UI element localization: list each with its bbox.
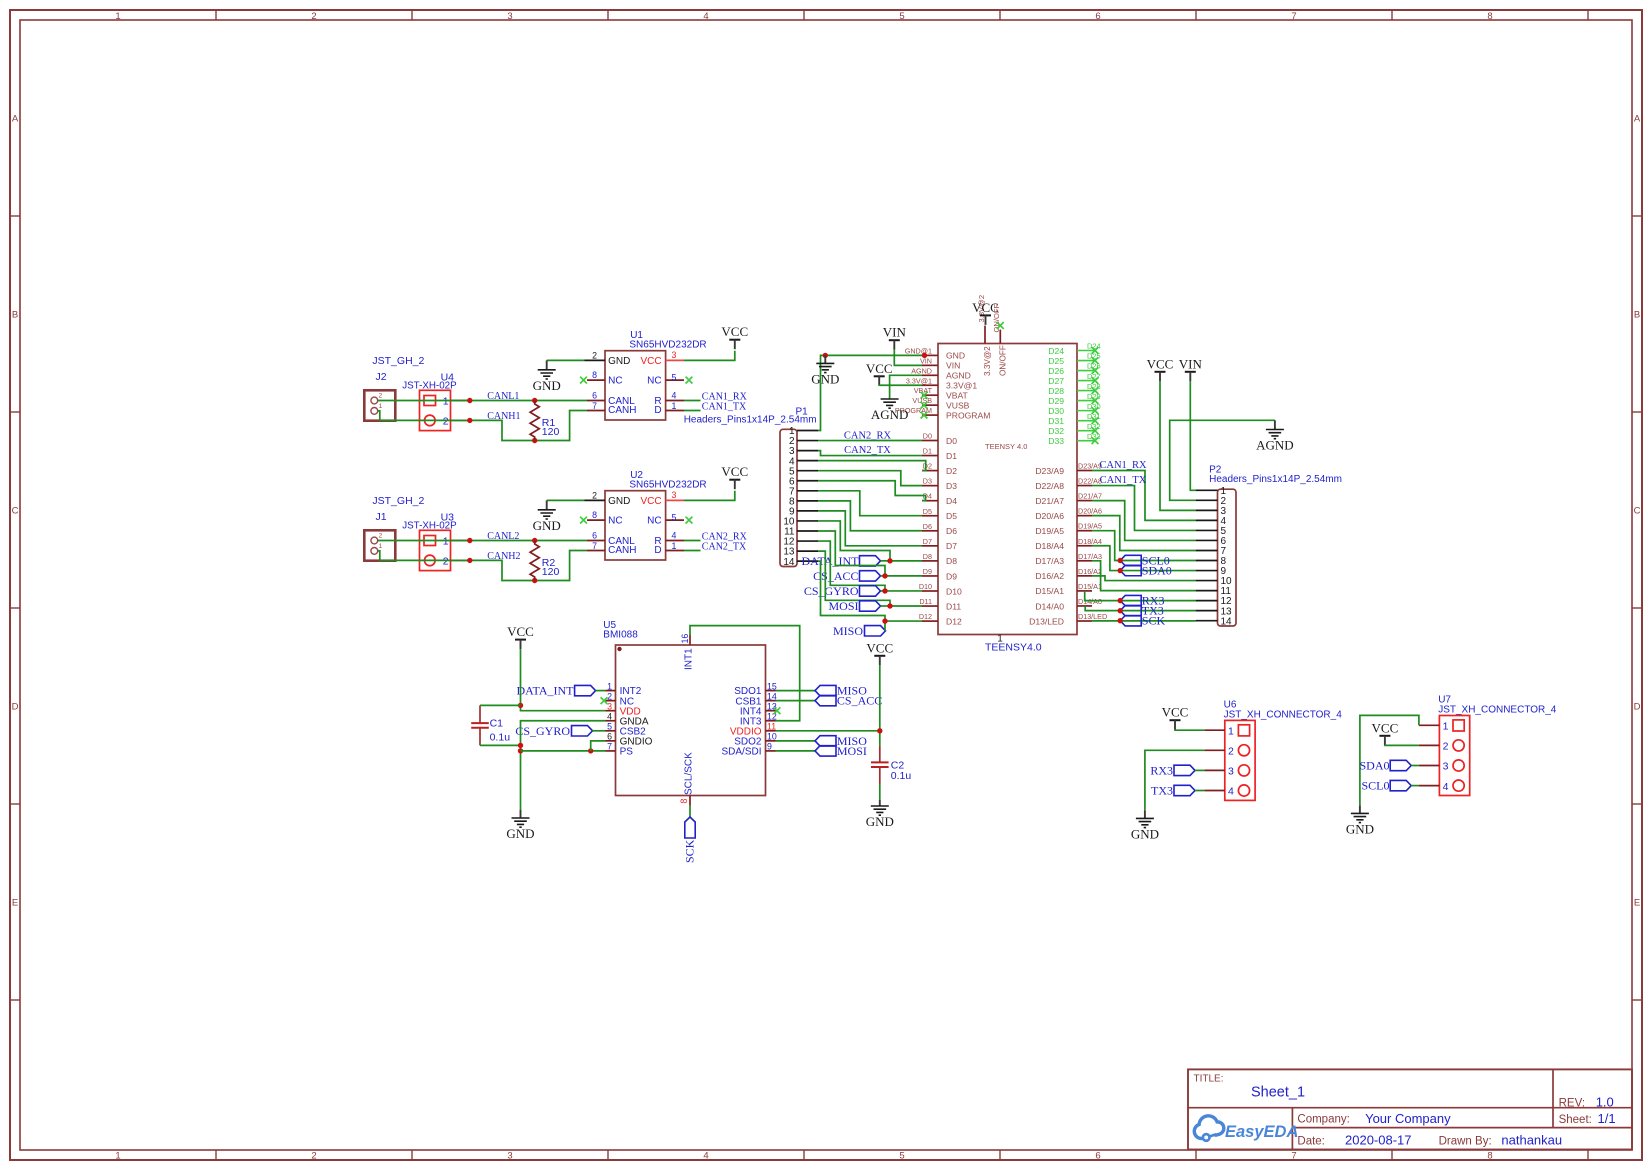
svg-text:VBAT: VBAT [946,391,969,401]
svg-text:2: 2 [1443,741,1449,753]
ground flag GND below U6 [1131,810,1159,841]
svg-text:VIN: VIN [920,356,932,365]
svg-text:11: 11 [767,722,776,732]
svg-text:1: 1 [115,1151,120,1162]
svg-text:nathankau: nathankau [1501,1132,1562,1147]
power flag VCC right [1147,356,1174,381]
U5 pin 7 PS [606,742,634,758]
wire U8 D20/A6 to P2.7 [1092,516,1196,551]
U8 pin D31 (no connect) [1048,412,1100,426]
wire P1.6 to U8 D4 [818,481,926,501]
svg-text:2: 2 [443,415,449,427]
wire U8 D17/A3 to P2.11 [1092,561,1196,591]
svg-text:6: 6 [592,390,597,400]
svg-text:J2: J2 [376,371,387,383]
svg-text:GND: GND [608,356,630,367]
svg-text:2: 2 [379,533,383,540]
svg-text:6: 6 [607,732,612,742]
power flag VCC at U6 [1162,705,1189,730]
svg-text:TX3: TX3 [1151,784,1173,798]
net flag MISO at U5 SDO1 [776,684,868,698]
no-connect X at U8 D30 [1092,407,1099,414]
net flag RX3 [1120,594,1164,608]
net flag CS_GYRO at U5 CSB2 [515,724,605,738]
wire VCC to U7.2 [1385,744,1419,746]
svg-text:GND: GND [866,814,894,829]
svg-text:D32: D32 [1048,426,1064,436]
P2 pin 13 [1196,610,1218,612]
svg-text:D26: D26 [1048,366,1064,376]
wire VCC to U6.1 [1175,729,1204,732]
svg-text:3.3V@1: 3.3V@1 [946,381,977,391]
svg-text:120: 120 [542,426,560,438]
wire net CANL1 [378,391,587,402]
no-connect X at U8 D25 [1092,357,1099,364]
svg-text:MOSI: MOSI [837,744,867,758]
U8 pin D7 [922,537,957,551]
svg-text:Company:: Company: [1297,1113,1349,1125]
svg-text:D11: D11 [946,601,961,611]
no-connect X at U8 D32 [1092,427,1099,434]
svg-text:D: D [12,702,19,713]
net flag CS_GYRO [804,584,885,598]
svg-text:Sheet_1: Sheet_1 [1251,1085,1305,1101]
P1 pin 4 [797,460,818,462]
junction CANL1 at U4.1 [467,398,472,403]
wire U5 VDDIO to VCC net [776,730,880,732]
svg-text:8: 8 [592,510,597,520]
svg-text:BMI088: BMI088 [603,630,638,641]
svg-text:SDA0: SDA0 [1359,759,1389,773]
U8 pin D5 [922,507,957,521]
svg-text:D33: D33 [1048,436,1064,446]
U8 pin D14/A0 [1035,597,1102,611]
U8 pin D0 [922,432,957,446]
wire U8 D16/A2 to P2.10 [1092,576,1196,581]
svg-text:MISO: MISO [833,624,863,638]
svg-text:7: 7 [592,541,597,551]
svg-text:D10: D10 [946,586,962,596]
svg-text:4: 4 [703,11,708,22]
junction MOSI at D11 [887,603,892,608]
svg-text:VIN: VIN [946,361,960,371]
svg-text:NC: NC [608,516,622,527]
wire C2 bottom to ground [879,784,881,800]
svg-text:1.0: 1.0 [1596,1095,1614,1110]
net flag CS_ACC [813,569,885,583]
U8 pin D2 [922,462,957,476]
no-connect X at U8 D26 [1092,367,1099,374]
connector U3 JST-XH-02P [402,511,467,570]
capacitor C1 0.1u [471,705,510,745]
wire VCC to U5 VDD [521,649,606,711]
svg-text:D12: D12 [946,616,962,626]
U8 pin D3 [922,477,957,491]
svg-text:3: 3 [1228,766,1234,778]
wire net RX3: U8 D15/A1 to P2.12 [1085,591,1196,601]
svg-text:VCC: VCC [507,624,534,639]
svg-text:B: B [1634,310,1640,321]
svg-text:D8: D8 [923,552,932,561]
svg-text:Drawn By:: Drawn By: [1439,1135,1492,1147]
svg-text:CANL2: CANL2 [487,531,519,542]
U8 pin D13/LED [1029,612,1107,626]
svg-text:7: 7 [607,742,612,752]
U7 pin 3 [1419,765,1440,767]
svg-text:1: 1 [379,543,383,550]
junction CANH2 at U3.2 [467,558,472,563]
svg-text:GND: GND [533,378,561,393]
svg-text:CAN1_TX: CAN1_TX [702,401,747,412]
svg-text:2: 2 [311,1151,316,1162]
svg-text:SCK: SCK [683,839,697,863]
U1 pin 2 GND [585,359,606,361]
wire P1.4 to U8 D2 [818,461,926,471]
svg-text:Date:: Date: [1297,1135,1325,1147]
svg-text:D19/A5: D19/A5 [1078,522,1102,531]
junction CANL1 at R1 top [532,398,537,403]
svg-text:CAN1_RX: CAN1_RX [1099,460,1147,471]
ground flag GND left of U8 [811,355,839,386]
no-connect X at U5 pin 2 [601,697,608,704]
wire net SDA0: U8 D18/A4 to P2.9 [1092,546,1196,571]
svg-text:5: 5 [899,11,904,22]
svg-text:D6: D6 [923,522,932,531]
no-connect X at U8 D33 [1092,437,1099,444]
wire net TX3: U8 D14/A0 to P2.13 [1085,606,1195,611]
U8 pin D21/A7 [1035,492,1102,506]
junction MISO at D12 [882,618,887,623]
svg-text:3: 3 [672,490,677,500]
wire P1.7 to U8 D5 [818,491,922,516]
U1 pin 4 R [666,400,684,402]
U3 pin 1 [451,540,468,542]
wire AGND to P2.2 [1170,420,1275,500]
U8 pin 3.3V@2 [977,295,992,376]
P2 pin 4 [1196,519,1218,521]
U8 pin D18/A4 [1035,537,1102,551]
svg-text:D15/A1: D15/A1 [1035,586,1064,596]
U8 pin VUSB [912,396,969,410]
no-connect X at U8 VUSB [921,402,928,409]
U2 pin 2 GND [585,499,606,501]
net flag MISO below D12 [833,621,886,638]
svg-text:D23/A9: D23/A9 [1035,466,1064,476]
svg-text:DATA_INT: DATA_INT [516,684,574,698]
svg-text:1: 1 [379,403,383,410]
svg-text:CAN2_TX: CAN2_TX [844,445,891,456]
wire U5 INT1 to INT3 [690,626,800,721]
svg-text:D22/A8: D22/A8 [1035,481,1064,491]
ground flag GND at U1 [533,360,561,392]
svg-text:CS_ACC: CS_ACC [837,694,882,708]
svg-text:5: 5 [672,373,677,383]
no-connect X at U8 D29 [1092,397,1099,404]
wire VCC to P2.3 [1160,381,1196,510]
svg-text:RX3: RX3 [1150,764,1173,778]
svg-text:D: D [1634,702,1641,713]
svg-text:5: 5 [899,1151,904,1162]
svg-text:2: 2 [379,393,383,400]
U5 pin 6 GNDIO [606,732,653,748]
svg-text:1: 1 [1443,721,1449,733]
svg-text:SDA/SDI: SDA/SDI [721,747,761,758]
U1 pin 1 D [666,410,684,412]
title block [1188,1069,1632,1149]
svg-text:120: 120 [542,566,560,578]
svg-text:4: 4 [1228,786,1234,798]
U8 pin D22/A8 [1035,477,1102,491]
svg-text:10: 10 [767,732,777,742]
svg-text:D27: D27 [1048,376,1064,386]
junction SCL0 [1118,558,1123,563]
wire net CS_GYRO: P1.12 to U8 D10 [818,541,922,591]
svg-text:D3: D3 [923,477,932,486]
U5 pin 12 INT3 [740,712,777,728]
svg-text:J1: J1 [376,511,387,523]
U8 pin D30 (no connect) [1048,402,1100,416]
svg-text:7: 7 [592,401,597,411]
svg-text:GND@1: GND@1 [905,346,932,355]
svg-text:NC: NC [608,376,622,387]
svg-text:E: E [1634,898,1640,909]
svg-text:VCC: VCC [640,356,661,367]
U8 pin ON/OFF [992,303,1007,376]
svg-text:1: 1 [607,681,612,691]
U8 pin D24 (no connect) [1048,342,1100,356]
svg-text:Your Company: Your Company [1365,1111,1451,1126]
svg-text:TEENSY 4.0: TEENSY 4.0 [985,442,1027,451]
svg-text:2: 2 [592,350,597,360]
wire net CAN1_RX [684,391,748,402]
wire net CAN2_RX [684,531,748,542]
power flag VCC at U8 3.3V@2 [980,314,991,316]
wire net CS_ACC: P1.11 to U8 D9 [818,531,922,576]
U1 pin 6 CANL [587,400,605,402]
P1 pin 11 [797,530,818,532]
U8 pin D9 [922,567,957,581]
svg-text:16: 16 [680,634,690,644]
P1 pin 6 [797,480,818,482]
svg-text:D28: D28 [1048,386,1064,396]
no-connect X at U5 pin 13 [774,707,781,714]
svg-text:D0: D0 [923,432,932,441]
svg-text:CANH: CANH [608,405,636,416]
svg-text:JST_GH_2: JST_GH_2 [372,355,424,367]
svg-text:JST_XH_CONNECTOR_4: JST_XH_CONNECTOR_4 [1224,709,1343,720]
svg-text:D: D [654,545,661,556]
resistor R1 120 [530,401,559,441]
P2 pin 12 [1196,600,1218,602]
junction GND at U8 GND@1 pin [922,353,927,358]
svg-text:3: 3 [507,1151,512,1162]
connector P1 Headers_Pins1x14P_2.54mm [684,407,818,568]
svg-text:D4: D4 [946,496,957,506]
wire net MOSI: P1.13 to U8 D11 [818,551,922,606]
svg-text:VCC: VCC [866,361,893,376]
wire net CAN1_TX: U8 D22/A8 to P2.5 [1092,475,1196,530]
wire U2 GND to ground [547,499,585,501]
U5 pin 3 VDD [606,702,641,718]
U8 pin D8 [922,552,957,566]
svg-text:CAN1_TX: CAN1_TX [1100,475,1147,486]
resistor R2 120 [530,541,559,581]
svg-text:D9: D9 [946,571,957,581]
P1 pin 9 [797,510,818,512]
junction GND at C1 bottom [518,743,523,748]
U5 pin 1 INT2 [606,681,642,697]
wire U8 D21/A7 to P2.6 [1092,501,1196,541]
wire U7.1 to GND (top loop) [1360,715,1419,805]
wire GND net: P1.1 to U8 GND@1 [818,355,922,430]
wire net SCL0: U8 D19/A5 to P2.8 [1092,531,1196,561]
svg-text:2: 2 [311,11,316,22]
power flag VIN right [1179,356,1203,381]
svg-text:ON/OFF: ON/OFF [998,345,1007,376]
no-connect X at U8 VBAT [921,392,928,399]
svg-text:2: 2 [592,490,597,500]
connector U7 JST_XH_CONNECTOR_4 [1419,695,1557,796]
svg-text:D25: D25 [1048,356,1064,366]
ground flag GND below U7 [1346,805,1374,836]
U8 pin D11 [919,597,961,611]
power flag VCC at U8 3.3V@1 [866,361,893,386]
U5 pin 9 SDA/SDI [721,742,775,758]
svg-text:D20/A6: D20/A6 [1078,507,1102,516]
U8 pin D19/A5 [1035,522,1102,536]
P2 pin 5 [1196,529,1218,531]
svg-text:VCC: VCC [1147,356,1174,371]
P2 pin 7 [1196,549,1218,551]
svg-text:D24: D24 [1048,346,1064,356]
svg-text:D14/A0: D14/A0 [1035,601,1064,611]
connector J1 JST_GH_2 [364,495,424,561]
net flag DATA_INT at U5 INT2 [516,684,605,698]
svg-text:CANH1: CANH1 [487,411,520,422]
net flag DATA_INT [801,554,890,568]
svg-text:Sheet:: Sheet: [1559,1114,1592,1126]
svg-text:2020-08-17: 2020-08-17 [1345,1132,1412,1147]
net flag SDA0 at U7.3 [1359,759,1418,773]
junction VCC/VDDIO at C2 [877,728,882,733]
svg-text:14: 14 [1221,616,1233,627]
svg-text:1: 1 [443,395,449,407]
wire P1.8 to U8 D6 [818,501,922,531]
U5 pin 2 NC [606,691,635,707]
junction VCC at C1 top [518,703,523,708]
U7 pin 2 [1419,744,1440,746]
junction CANH1 at U4.2 [467,418,472,423]
P2 pin 10 [1196,580,1218,582]
wire net CANH1 [378,411,587,441]
wire net CAN2_TX [684,541,747,552]
svg-text:A: A [12,114,19,125]
U8 pin D12 [919,612,962,626]
svg-text:GND: GND [506,826,534,841]
junction GND at PS wire [518,748,523,753]
U8 pin D28 (no connect) [1048,382,1100,396]
P2 pin 11 [1196,590,1218,592]
svg-text:8: 8 [679,799,689,804]
svg-text:D21/A7: D21/A7 [1078,492,1102,501]
net flag SCL0 [1120,554,1170,568]
junction CANH2 at R2 bottom [532,578,537,583]
svg-text:JST_XH_CONNECTOR_4: JST_XH_CONNECTOR_4 [1438,705,1557,716]
U4 pin 2 [451,419,468,421]
connector U4 JST-XH-02P [402,371,467,430]
junction CANL2 at U3.1 [467,538,472,543]
svg-text:D20/A6: D20/A6 [1035,511,1064,521]
wire VCC to U8 3.3V@1 pin [879,384,922,387]
svg-text:1: 1 [443,535,449,547]
capacitor C2 0.1u [871,746,911,784]
net flag MOSI [828,599,890,613]
svg-text:SCL0: SCL0 [1361,779,1389,793]
U5 pin 11 VDDIO [730,722,776,738]
U2 pin 5 NC [666,519,684,521]
svg-text:7: 7 [1291,11,1296,22]
U8 pin D29 (no connect) [1048,392,1100,406]
ground flag GND below C1 [506,810,534,841]
svg-text:C: C [12,506,19,517]
svg-text:VCC: VCC [640,496,661,507]
P1 pin 13 [797,550,818,552]
wire net MISO: P1.14 to U8 D12 [818,561,922,621]
U8 pin D25 (no connect) [1048,352,1100,366]
svg-text:AGND: AGND [1256,438,1294,453]
svg-text:D13/LED: D13/LED [1078,612,1107,621]
U8 pin D23/A9 [1035,462,1102,476]
P1 pin 2 [797,440,818,442]
net flag TX3 at U6.4 [1151,784,1204,798]
svg-text:AGND: AGND [946,371,971,381]
svg-text:8: 8 [592,370,597,380]
svg-text:D: D [654,405,661,416]
P2 pin 14 [1196,620,1218,622]
junction SDA0 [1118,568,1123,573]
ground flag AGND at U8 [871,399,909,422]
power flag VCC at U7 [1372,720,1399,745]
U8 pin D15/A1 [1035,582,1102,596]
svg-text:5: 5 [672,513,677,523]
net flag SCK [1120,614,1165,628]
svg-text:JST_GH_2: JST_GH_2 [372,495,424,507]
svg-text:AGND: AGND [911,366,932,375]
svg-text:SDA0: SDA0 [1142,564,1172,578]
U6 pin 1 [1204,729,1225,731]
svg-text:PS: PS [620,747,634,758]
svg-text:CS_GYRO: CS_GYRO [515,724,570,738]
no-connect X at U8 D24 [1092,347,1099,354]
junction PS/GNDIO [588,748,593,753]
wire U5 PS to GND net [521,750,606,752]
svg-text:D16/A2: D16/A2 [1078,567,1102,576]
svg-text:D13/LED: D13/LED [1029,616,1064,626]
svg-text:8: 8 [1487,1151,1492,1162]
wire AGND from U8 AGND pin [890,375,922,399]
op-amp/IC U1 SN65HVD232DR [580,330,707,420]
svg-text:3.3V@1: 3.3V@1 [906,376,932,385]
svg-text:1: 1 [115,11,120,22]
U5 pin 8 SCL/SCK [679,752,695,806]
svg-text:D9: D9 [923,567,932,576]
svg-text:3: 3 [1443,761,1449,773]
U8 pin D4 [922,492,957,506]
svg-text:GND: GND [1131,826,1159,841]
wire U2 VCC [684,491,735,501]
svg-text:4: 4 [607,712,612,722]
svg-text:VCC: VCC [1162,705,1189,720]
